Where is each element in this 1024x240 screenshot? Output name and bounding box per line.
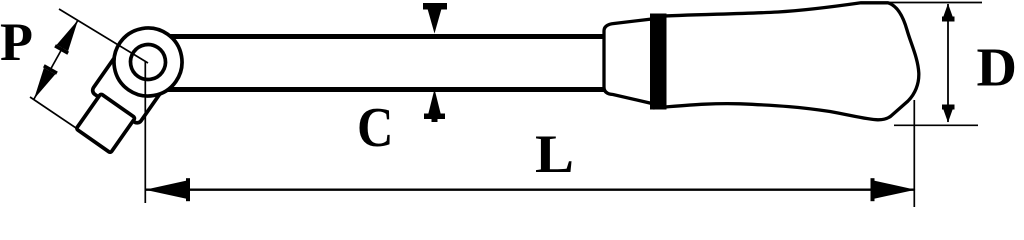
D dimension line [947,4,949,122]
swivel head group [65,15,195,160]
square drive tang [76,94,135,153]
L left extension line from head centre [144,62,146,203]
P extension line at square corner [30,97,79,130]
L right extension line [913,100,915,207]
svg-text:D: D [977,37,1018,98]
head ring inner hole [124,38,173,87]
svg-text:C: C [357,97,394,159]
D bottom extension line [894,124,978,126]
C dimension bottom arrow [428,89,441,115]
P extension line through ring centre [59,9,148,63]
L arrowhead right [874,181,916,199]
svg-text:P: P [0,12,33,72]
wire shaft bottom line [160,87,606,92]
P dimension line [34,20,78,99]
P arrowhead upper [57,20,78,51]
head ring outer [101,15,196,110]
C dimension top arrow [427,7,442,34]
L dimension line [146,188,914,190]
head body [91,45,171,125]
ferrule band [650,14,667,110]
D arrowhead bottom [943,107,954,123]
D arrowhead top [943,4,954,20]
wire shaft top line [160,34,606,39]
L arrowhead left [145,181,187,199]
svg-text:L: L [535,124,574,184]
handle grip body [655,3,919,120]
handle ferrule [604,19,652,104]
D top extension line [888,2,982,4]
P arrowhead lower [34,68,55,99]
